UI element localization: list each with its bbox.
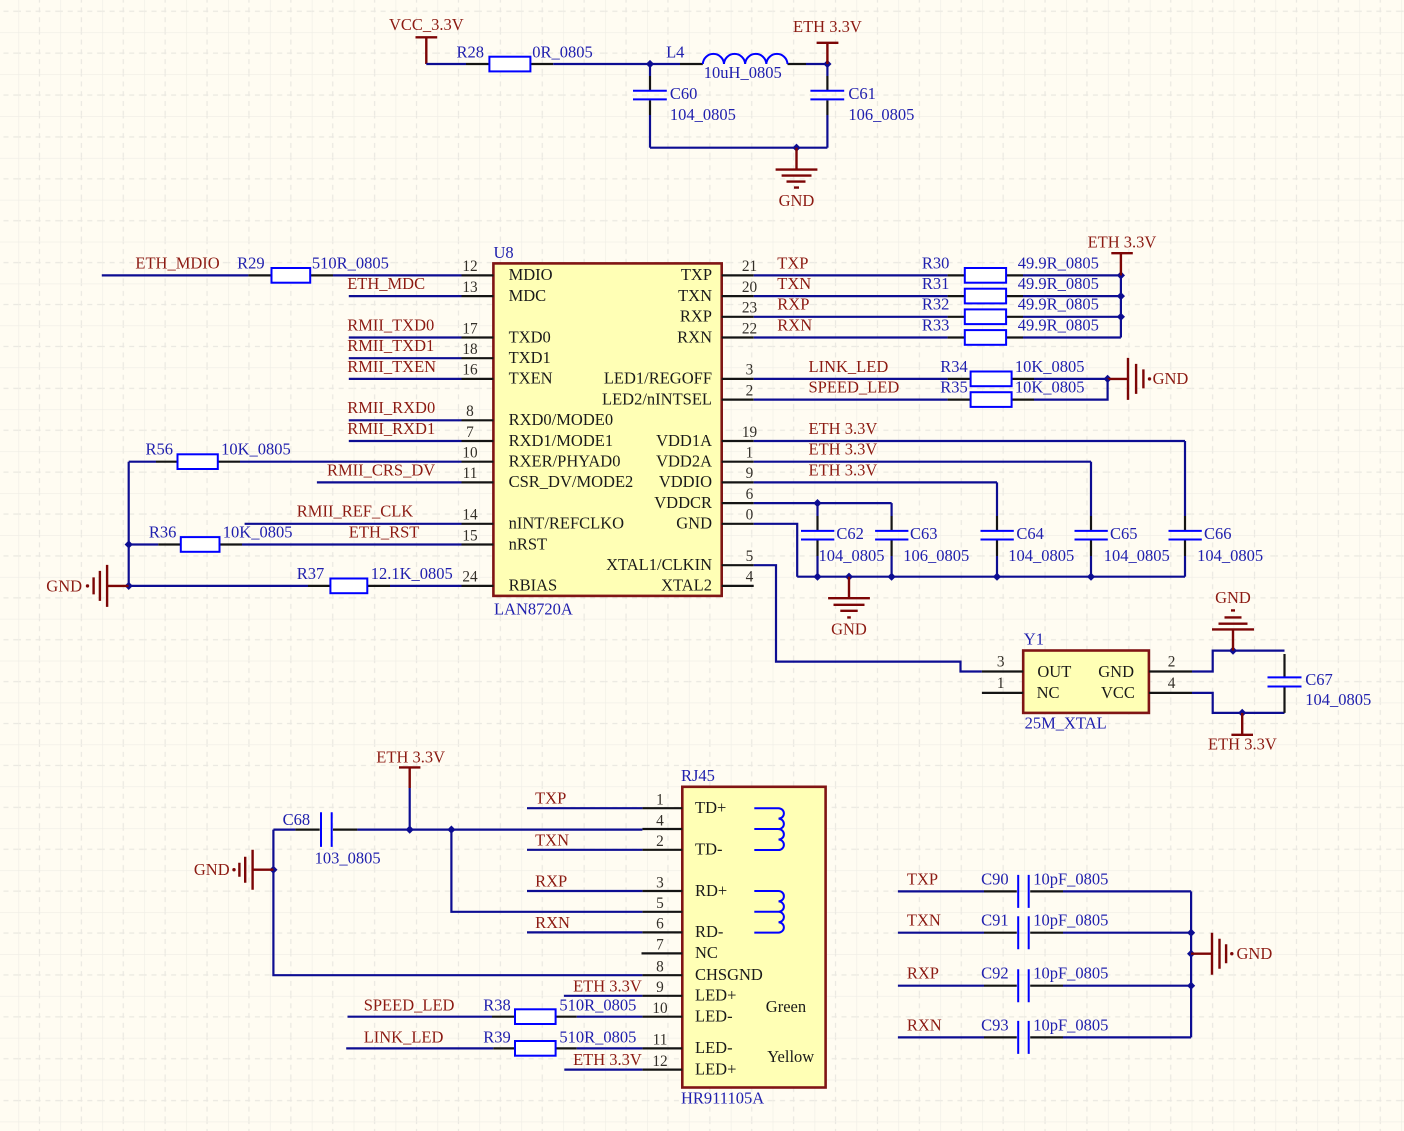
svg-text:R34: R34 bbox=[940, 357, 968, 376]
svg-text:R32: R32 bbox=[922, 295, 950, 314]
svg-text:12: 12 bbox=[462, 258, 477, 275]
wire net RMII_REF_CLK bbox=[245, 502, 462, 524]
wire net RMII_TXEN bbox=[347, 357, 461, 379]
svg-text:R36: R36 bbox=[149, 522, 177, 541]
svg-text:25M_XTAL: 25M_XTAL bbox=[1025, 714, 1107, 733]
svg-text:R37: R37 bbox=[297, 564, 325, 583]
svg-text:RMII_TXD1: RMII_TXD1 bbox=[347, 336, 434, 355]
node junction bbox=[813, 499, 821, 507]
wire bbox=[1023, 336, 1121, 338]
svg-text:RXN: RXN bbox=[677, 327, 712, 346]
svg-text:RXP: RXP bbox=[777, 295, 809, 314]
wire bbox=[1023, 316, 1121, 318]
svg-text:3: 3 bbox=[656, 874, 664, 891]
U8 pin 6 VDDCR bbox=[654, 486, 753, 512]
wire net LINK_LED bbox=[754, 357, 948, 379]
wire bbox=[426, 63, 466, 65]
svg-text:4: 4 bbox=[746, 569, 754, 586]
ground GND right of R34 bbox=[1108, 358, 1189, 400]
wire pin4 to C67 bottom bbox=[1192, 693, 1285, 713]
RJ45 pin 6 RD- bbox=[642, 916, 723, 942]
wire net RXP bbox=[527, 872, 642, 892]
node junction bbox=[125, 582, 133, 590]
U8 pin 19 VDD1A bbox=[656, 424, 757, 450]
svg-text:22: 22 bbox=[742, 320, 757, 337]
wire net ETH_RST bbox=[242, 522, 462, 544]
svg-text:VDDIO: VDDIO bbox=[659, 472, 712, 491]
svg-text:HR911105A: HR911105A bbox=[681, 1088, 764, 1107]
wire bbox=[577, 1016, 643, 1018]
svg-text:R29: R29 bbox=[237, 253, 265, 272]
U8 pin 22 RXN bbox=[677, 320, 757, 346]
wire net TXP bbox=[754, 253, 948, 275]
svg-text:10pF_0805: 10pF_0805 bbox=[1033, 964, 1108, 983]
capacitor C92 net RXP bbox=[898, 964, 1191, 1003]
wire net ETH 3.3V to VDD1A bbox=[754, 419, 1185, 441]
svg-text:10pF_0805: 10pF_0805 bbox=[1033, 911, 1108, 930]
svg-text:LAN8720A: LAN8720A bbox=[494, 599, 573, 618]
svg-text:4: 4 bbox=[656, 812, 664, 829]
svg-text:10K_0805: 10K_0805 bbox=[223, 522, 293, 541]
capacitor C91 net TXN bbox=[898, 911, 1191, 950]
ground GND bbox=[776, 148, 818, 210]
svg-text:6: 6 bbox=[656, 916, 664, 933]
node junction bbox=[447, 826, 455, 834]
wire bbox=[357, 828, 642, 830]
svg-text:L4: L4 bbox=[666, 43, 684, 62]
node junction bbox=[1117, 292, 1125, 300]
svg-text:C65: C65 bbox=[1110, 524, 1138, 543]
resistor R36 bbox=[129, 522, 293, 551]
svg-text:TD+: TD+ bbox=[695, 798, 726, 817]
svg-text:LED+: LED+ bbox=[695, 1059, 736, 1078]
wire bbox=[333, 274, 462, 276]
svg-text:GND: GND bbox=[1237, 944, 1273, 963]
svg-text:ETH_MDC: ETH_MDC bbox=[347, 274, 425, 293]
node junction bbox=[813, 573, 821, 581]
svg-text:8: 8 bbox=[656, 959, 664, 976]
svg-text:R39: R39 bbox=[483, 1027, 511, 1046]
wire net ETH 3.3V pin 9 bbox=[564, 976, 643, 996]
U8 pin 12 MDIO bbox=[462, 258, 553, 284]
svg-text:ETH 3.3V: ETH 3.3V bbox=[809, 440, 878, 459]
U8 pin 15 nRST bbox=[462, 527, 548, 553]
svg-text:LINK_LED: LINK_LED bbox=[364, 1027, 444, 1046]
svg-text:VCC: VCC bbox=[1101, 683, 1135, 702]
svg-text:RMII_CRS_DV: RMII_CRS_DV bbox=[327, 460, 435, 479]
power ETH 3.3V below Y1 bbox=[1208, 713, 1277, 754]
U8 pin 16 TXEN bbox=[462, 362, 553, 388]
resistor R30 bbox=[922, 253, 1099, 282]
svg-text:RXN: RXN bbox=[535, 913, 570, 932]
svg-text:OUT: OUT bbox=[1037, 662, 1071, 681]
capacitor C62 bbox=[801, 503, 885, 577]
svg-text:106_0805: 106_0805 bbox=[903, 546, 969, 565]
svg-text:RXN: RXN bbox=[907, 1015, 942, 1034]
svg-text:104_0805: 104_0805 bbox=[819, 546, 885, 565]
svg-text:TXN: TXN bbox=[907, 911, 941, 930]
svg-text:GND: GND bbox=[46, 576, 82, 595]
svg-text:5: 5 bbox=[656, 895, 664, 912]
svg-text:19: 19 bbox=[742, 424, 758, 441]
transformer coil RD bbox=[754, 891, 784, 933]
svg-text:510R_0805: 510R_0805 bbox=[559, 996, 636, 1015]
svg-text:23: 23 bbox=[742, 300, 758, 317]
svg-text:TXP: TXP bbox=[681, 265, 712, 284]
node junction bbox=[1229, 647, 1237, 655]
svg-text:24: 24 bbox=[462, 569, 478, 586]
node junction bbox=[406, 826, 414, 834]
capacitor C64 bbox=[981, 482, 1075, 576]
resistor R32 bbox=[922, 295, 1099, 324]
wire net RMII_RXD1 bbox=[347, 419, 461, 441]
svg-text:11: 11 bbox=[653, 1032, 668, 1049]
svg-text:ETH_RST: ETH_RST bbox=[349, 522, 420, 541]
svg-text:RXP: RXP bbox=[535, 872, 567, 891]
svg-text:5: 5 bbox=[746, 548, 754, 565]
svg-text:RXN: RXN bbox=[777, 315, 812, 334]
resistor R29 bbox=[237, 253, 389, 282]
RJ45 pin 1 TD+ bbox=[642, 792, 726, 818]
svg-text:2: 2 bbox=[1168, 653, 1176, 670]
U8 pin 24 RBIAS bbox=[462, 569, 558, 595]
svg-text:U8: U8 bbox=[494, 243, 514, 262]
U8 pin 10 RXER/PHYAD0 bbox=[462, 445, 621, 471]
wire bbox=[1023, 295, 1121, 297]
svg-text:LED-: LED- bbox=[695, 1007, 733, 1026]
resistor R39 bbox=[483, 1027, 636, 1055]
svg-text:Y1: Y1 bbox=[1024, 630, 1044, 649]
wire bbox=[1034, 379, 1108, 400]
svg-text:RXD1/MODE1: RXD1/MODE1 bbox=[509, 431, 614, 450]
svg-text:10pF_0805: 10pF_0805 bbox=[1033, 1015, 1108, 1034]
node junction bbox=[125, 540, 133, 548]
svg-text:LED2/nINTSEL: LED2/nINTSEL bbox=[602, 389, 712, 408]
svg-text:103_0805: 103_0805 bbox=[315, 848, 381, 867]
resistor R56 bbox=[129, 440, 291, 469]
svg-text:49.9R_0805: 49.9R_0805 bbox=[1018, 315, 1099, 334]
wire pin2 to C67 top bbox=[1192, 651, 1285, 672]
U8 pin 21 TXP bbox=[681, 258, 757, 284]
wire net RXN bbox=[527, 913, 642, 933]
svg-text:ETH 3.3V: ETH 3.3V bbox=[573, 1050, 642, 1069]
svg-text:0: 0 bbox=[746, 507, 754, 524]
wire net RMII_TXD1 bbox=[347, 336, 461, 358]
svg-text:ETH 3.3V: ETH 3.3V bbox=[1208, 735, 1277, 754]
node junction bbox=[823, 60, 831, 68]
svg-text:3: 3 bbox=[997, 653, 1005, 670]
resistor R28 bbox=[457, 43, 593, 72]
wire ground bus bbox=[797, 576, 1185, 578]
svg-text:VDD2A: VDD2A bbox=[656, 452, 712, 471]
svg-text:CHSGND: CHSGND bbox=[695, 965, 763, 984]
svg-text:GND: GND bbox=[676, 514, 712, 533]
svg-text:RJ45: RJ45 bbox=[681, 766, 715, 785]
svg-text:18: 18 bbox=[462, 341, 478, 358]
wire bbox=[553, 63, 680, 65]
svg-text:MDIO: MDIO bbox=[509, 265, 553, 284]
wire bbox=[806, 63, 827, 65]
svg-text:4: 4 bbox=[1168, 675, 1176, 692]
svg-text:8: 8 bbox=[466, 403, 474, 420]
U8 pin 3 LED1/REGOFF bbox=[604, 362, 754, 388]
svg-text:C68: C68 bbox=[283, 810, 311, 829]
U8 pin 18 TXD1 bbox=[462, 341, 551, 367]
wire net RXP bbox=[754, 295, 948, 317]
svg-text:12: 12 bbox=[652, 1053, 667, 1070]
svg-text:106_0805: 106_0805 bbox=[848, 105, 914, 124]
wire bbox=[390, 585, 462, 587]
svg-text:TXD1: TXD1 bbox=[509, 348, 551, 367]
wire net RMII_RXD0 bbox=[347, 398, 461, 420]
svg-text:ETH_MDIO: ETH_MDIO bbox=[135, 253, 219, 272]
svg-text:XTAL1/CLKIN: XTAL1/CLKIN bbox=[606, 555, 712, 574]
capacitor C68 bbox=[273, 810, 380, 868]
svg-text:21: 21 bbox=[742, 258, 757, 275]
svg-text:R38: R38 bbox=[483, 996, 511, 1015]
svg-text:TXN: TXN bbox=[777, 274, 811, 293]
U8 pin 7 RXD1/MODE1 bbox=[462, 424, 614, 450]
node junction bbox=[1187, 982, 1195, 990]
svg-text:C66: C66 bbox=[1204, 524, 1232, 543]
ground GND below bus bbox=[828, 577, 870, 639]
svg-text:10K_0805: 10K_0805 bbox=[1015, 378, 1085, 397]
wire bus ETH 3.3V bbox=[1120, 275, 1122, 337]
RJ45 pin 8 CHSGND bbox=[642, 959, 763, 985]
svg-text:ETH 3.3V: ETH 3.3V bbox=[809, 419, 878, 438]
svg-text:R33: R33 bbox=[922, 315, 950, 334]
svg-text:GND: GND bbox=[194, 860, 230, 879]
svg-text:GND: GND bbox=[831, 620, 867, 639]
wire bbox=[650, 147, 827, 149]
svg-text:10K_0805: 10K_0805 bbox=[1015, 357, 1085, 376]
svg-text:ETH 3.3V: ETH 3.3V bbox=[793, 17, 862, 36]
node junction bbox=[792, 144, 800, 152]
svg-text:9: 9 bbox=[656, 979, 664, 996]
capacitor C66 bbox=[1169, 441, 1264, 577]
wire net SPEED_LED bbox=[754, 378, 948, 400]
svg-text:510R_0805: 510R_0805 bbox=[559, 1027, 636, 1046]
U8 pin 8 RXD0/MODE0 bbox=[462, 403, 614, 429]
svg-text:R35: R35 bbox=[940, 378, 968, 397]
svg-text:RXP: RXP bbox=[907, 964, 939, 983]
svg-text:10pF_0805: 10pF_0805 bbox=[1033, 869, 1108, 888]
svg-text:10K_0805: 10K_0805 bbox=[221, 440, 291, 459]
wire net ETH 3.3V pin 12 bbox=[564, 1050, 642, 1070]
wire bbox=[1034, 378, 1108, 380]
svg-text:TXN: TXN bbox=[678, 286, 712, 305]
capacitor C63 bbox=[875, 503, 969, 577]
svg-text:2: 2 bbox=[746, 382, 754, 399]
svg-text:NC: NC bbox=[1037, 683, 1060, 702]
svg-text:LED-: LED- bbox=[695, 1038, 733, 1057]
capacitor C60 bbox=[633, 64, 736, 148]
svg-text:17: 17 bbox=[462, 320, 478, 337]
power ETH 3.3V bbox=[1088, 233, 1157, 276]
node junction bbox=[1117, 271, 1125, 279]
U8 pin 5 XTAL1/CLKIN bbox=[606, 548, 754, 574]
svg-text:RMII_TXEN: RMII_TXEN bbox=[347, 357, 436, 376]
svg-text:104_0805: 104_0805 bbox=[1305, 690, 1371, 709]
svg-text:GND: GND bbox=[1098, 662, 1134, 681]
svg-text:0R_0805: 0R_0805 bbox=[532, 43, 593, 62]
svg-text:nRST: nRST bbox=[509, 534, 548, 553]
wire GND pin bbox=[754, 524, 798, 577]
svg-text:ETH 3.3V: ETH 3.3V bbox=[573, 976, 642, 995]
U8 pin 4 XTAL2 bbox=[661, 569, 754, 595]
U8 pin 11 CSR_DV/MODE2 bbox=[462, 465, 634, 491]
wire net LINK_LED bbox=[346, 1027, 493, 1048]
ground GND left bbox=[46, 565, 128, 607]
RJ45 pin 4 bbox=[642, 812, 682, 829]
wire net RXN bbox=[754, 315, 948, 337]
RJ45 pin 12 LED+ bbox=[642, 1053, 736, 1079]
wire net TXN bbox=[527, 830, 642, 850]
svg-text:C64: C64 bbox=[1016, 524, 1044, 543]
svg-text:C91: C91 bbox=[981, 911, 1009, 930]
svg-text:104_0805: 104_0805 bbox=[1104, 546, 1170, 565]
svg-text:VCC_3.3V: VCC_3.3V bbox=[389, 15, 464, 34]
svg-text:RD+: RD+ bbox=[695, 881, 727, 900]
resistor R37 bbox=[129, 564, 453, 593]
svg-text:R30: R30 bbox=[922, 253, 950, 272]
wire net ETH_MDC bbox=[347, 274, 461, 296]
svg-text:C90: C90 bbox=[981, 869, 1009, 888]
svg-text:NC: NC bbox=[695, 943, 718, 962]
resistor R33 bbox=[922, 315, 1099, 344]
svg-text:510R_0805: 510R_0805 bbox=[312, 253, 389, 272]
power VCC_3.3V bbox=[389, 15, 464, 64]
svg-text:7: 7 bbox=[656, 937, 664, 954]
node junction bbox=[1187, 929, 1195, 937]
svg-text:nINT/REFCLKO: nINT/REFCLKO bbox=[509, 514, 625, 533]
resistor R38 bbox=[483, 996, 636, 1024]
wire CHSGND branch bbox=[273, 830, 642, 976]
svg-text:RMII_RXD1: RMII_RXD1 bbox=[347, 419, 435, 438]
wire bbox=[577, 1047, 643, 1049]
svg-text:R31: R31 bbox=[922, 274, 950, 293]
power ETH 3.3V above C68 bbox=[376, 748, 445, 830]
svg-text:15: 15 bbox=[462, 527, 478, 544]
svg-text:12.1K_0805: 12.1K_0805 bbox=[371, 564, 453, 583]
U8 pin 13 MDC bbox=[462, 279, 547, 305]
svg-text:11: 11 bbox=[463, 465, 478, 482]
svg-text:Yellow: Yellow bbox=[767, 1047, 814, 1066]
node junction bbox=[1087, 573, 1095, 581]
svg-text:C92: C92 bbox=[981, 964, 1009, 983]
U8 pin 23 RXP bbox=[680, 300, 758, 326]
svg-text:10uH_0805: 10uH_0805 bbox=[704, 63, 782, 82]
svg-text:TXP: TXP bbox=[777, 253, 808, 272]
capacitor C93 net RXN bbox=[898, 1015, 1191, 1054]
svg-text:TD-: TD- bbox=[695, 840, 723, 859]
capacitor C67 bbox=[1268, 654, 1372, 713]
svg-text:C61: C61 bbox=[848, 84, 876, 103]
svg-text:TXD0: TXD0 bbox=[509, 327, 551, 346]
node junction bbox=[1104, 375, 1112, 383]
wire bus to GND bbox=[1190, 891, 1192, 1037]
capacitor C90 net TXP bbox=[898, 869, 1191, 908]
transformer coil TD bbox=[754, 808, 784, 850]
svg-text:10: 10 bbox=[652, 1000, 668, 1017]
svg-text:R56: R56 bbox=[146, 440, 174, 459]
U8 pin 20 TXN bbox=[678, 279, 757, 305]
svg-text:RXD0/MODE0: RXD0/MODE0 bbox=[509, 410, 614, 429]
U8 pin 1 VDD2A bbox=[656, 445, 754, 471]
wire bbox=[1023, 274, 1121, 276]
svg-text:VDD1A: VDD1A bbox=[656, 431, 712, 450]
connector RJ45 HR911105A body bbox=[681, 766, 826, 1107]
inductor L4 bbox=[666, 43, 806, 83]
svg-text:13: 13 bbox=[462, 279, 478, 296]
svg-text:GND: GND bbox=[1153, 369, 1189, 388]
svg-text:RXER/PHYAD0: RXER/PHYAD0 bbox=[509, 452, 621, 471]
svg-text:ETH 3.3V: ETH 3.3V bbox=[376, 748, 445, 767]
svg-text:7: 7 bbox=[466, 424, 474, 441]
svg-text:49.9R_0805: 49.9R_0805 bbox=[1018, 253, 1099, 272]
wire net RMII_CRS_DV bbox=[317, 460, 462, 482]
node junction bbox=[1117, 313, 1125, 321]
wire net ETH 3.3V to VDDIO bbox=[754, 460, 997, 482]
svg-text:TXP: TXP bbox=[907, 869, 938, 888]
svg-text:3: 3 bbox=[746, 362, 754, 379]
crystal Y1 body bbox=[1023, 630, 1149, 733]
svg-text:16: 16 bbox=[462, 362, 478, 379]
svg-text:1: 1 bbox=[746, 445, 754, 462]
svg-text:10: 10 bbox=[462, 445, 478, 462]
Y1 pin 3 bbox=[982, 653, 1023, 671]
wire net ETH 3.3V to VDD2A bbox=[754, 440, 1091, 462]
svg-text:RD-: RD- bbox=[695, 922, 723, 941]
node junction bbox=[845, 573, 853, 581]
svg-text:TXP: TXP bbox=[535, 789, 566, 808]
svg-text:C63: C63 bbox=[910, 524, 938, 543]
svg-text:RMII_RXD0: RMII_RXD0 bbox=[347, 398, 435, 417]
ground GND right bbox=[1191, 933, 1272, 975]
svg-text:ETH 3.3V: ETH 3.3V bbox=[1088, 233, 1157, 252]
svg-text:C67: C67 bbox=[1305, 670, 1333, 689]
svg-text:C60: C60 bbox=[670, 84, 698, 103]
wire to RJ45 pin 5 bbox=[451, 830, 642, 912]
svg-text:VDDCR: VDDCR bbox=[654, 493, 712, 512]
wire bbox=[240, 461, 462, 463]
svg-text:RBIAS: RBIAS bbox=[509, 576, 558, 595]
svg-text:104_0805: 104_0805 bbox=[1197, 546, 1263, 565]
RJ45 pin 11 LED- bbox=[642, 1032, 732, 1058]
ground GND left of C68 bbox=[194, 850, 274, 890]
svg-text:XTAL2: XTAL2 bbox=[661, 576, 712, 595]
wire net SPEED_LED bbox=[348, 996, 493, 1017]
resistor R34 bbox=[940, 357, 1084, 386]
svg-text:TXN: TXN bbox=[535, 830, 569, 849]
resistor R31 bbox=[922, 274, 1099, 303]
svg-text:49.9R_0805: 49.9R_0805 bbox=[1018, 274, 1099, 293]
svg-text:CSR_DV/MODE2: CSR_DV/MODE2 bbox=[509, 472, 634, 491]
capacitor C61 bbox=[810, 64, 914, 148]
svg-text:ETH 3.3V: ETH 3.3V bbox=[809, 460, 878, 479]
wire net TXP bbox=[527, 789, 642, 809]
svg-text:GND: GND bbox=[1215, 588, 1251, 607]
Y1 pin 2 bbox=[1149, 653, 1192, 671]
svg-text:104_0805: 104_0805 bbox=[670, 105, 736, 124]
U8 pin 17 TXD0 bbox=[462, 320, 551, 346]
wire bbox=[128, 462, 130, 586]
capacitor C65 bbox=[1075, 462, 1170, 577]
U8 pin 9 VDDIO bbox=[659, 465, 754, 491]
svg-text:C93: C93 bbox=[981, 1015, 1009, 1034]
svg-text:1: 1 bbox=[997, 675, 1005, 692]
svg-text:6: 6 bbox=[746, 486, 754, 503]
